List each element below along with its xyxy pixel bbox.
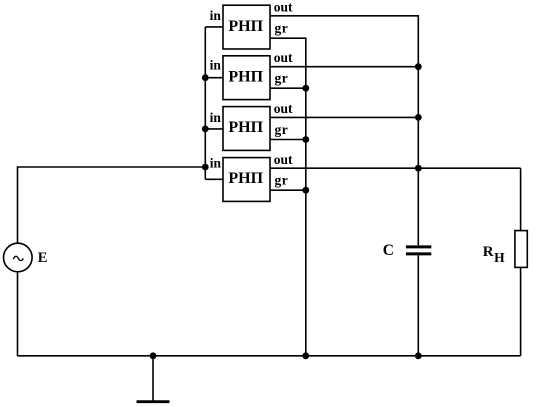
svg-text:C: C xyxy=(383,242,394,259)
wire gr pin U3 xyxy=(270,139,306,141)
node U2 out junction xyxy=(415,63,422,70)
svg-text:in: in xyxy=(210,58,222,73)
node U4 out junction xyxy=(415,165,422,172)
wire out-bus below capacitor xyxy=(417,255,419,355)
svg-text:gr: gr xyxy=(275,173,289,188)
ground stem xyxy=(152,356,154,401)
capacitor C bottom plate xyxy=(406,252,431,255)
wire gr pin U4 xyxy=(270,189,306,191)
node ground junction xyxy=(150,352,157,359)
wire out pin U4 to R branch xyxy=(270,167,521,169)
node main in junction xyxy=(202,164,209,171)
svg-text:in: in xyxy=(210,110,222,125)
node U2 in junction xyxy=(202,74,209,81)
svg-text:out: out xyxy=(274,152,293,167)
node gr-bus bottom junction xyxy=(302,352,309,359)
capacitor C top plate xyxy=(406,245,431,248)
wire left vertical upper (E top to corner) xyxy=(18,167,206,243)
wire in pin U4 xyxy=(205,178,223,180)
wire in pin U1 xyxy=(205,26,223,28)
ground bar xyxy=(137,400,170,403)
node U3 gr junction xyxy=(302,136,309,143)
wire in pin U3 xyxy=(205,128,223,130)
block U1 РНП xyxy=(223,5,270,49)
svg-text:РНП: РНП xyxy=(228,119,263,136)
source E circle xyxy=(3,243,32,272)
resistor RH body xyxy=(515,231,527,268)
svg-text:out: out xyxy=(274,50,293,65)
svg-text:РНП: РНП xyxy=(228,18,263,35)
source E sine symbol xyxy=(13,256,23,260)
node U3 out junction xyxy=(415,114,422,121)
node out-bus bottom junction xyxy=(415,352,422,359)
wire in pin U2 xyxy=(205,77,223,79)
svg-text:E: E xyxy=(38,250,48,266)
svg-text:РНП: РНП xyxy=(228,170,263,187)
wire in-bus vertical xyxy=(204,27,206,179)
svg-text:in: in xyxy=(210,156,222,171)
wire left vertical lower (E bottom to bottom rail) xyxy=(17,272,19,356)
block U2 РНП xyxy=(223,56,270,100)
node U3 in junction xyxy=(202,125,209,132)
wire out pin U1 to out-bus xyxy=(270,16,418,246)
svg-text:out: out xyxy=(274,0,293,15)
wire out pin U3 xyxy=(270,116,418,118)
block U4 РНП xyxy=(223,158,270,202)
block U3 РНП xyxy=(223,107,270,151)
wire R branch vertical lower xyxy=(520,267,522,355)
svg-text:out: out xyxy=(274,101,293,116)
node U4 gr junction xyxy=(302,187,309,194)
svg-text:РНП: РНП xyxy=(228,68,263,85)
wire R branch vertical upper xyxy=(520,168,522,230)
svg-text:in: in xyxy=(210,8,222,23)
node U2 gr junction xyxy=(302,85,309,92)
svg-text:gr: gr xyxy=(275,21,289,36)
wire out pin U2 xyxy=(270,66,418,68)
wire bottom rail xyxy=(18,355,521,357)
svg-text:gr: gr xyxy=(275,122,289,137)
wire gr pin U2 xyxy=(270,87,306,89)
wire gr pin U1 to gr-bus xyxy=(270,38,306,356)
svg-text:gr: gr xyxy=(275,71,289,86)
